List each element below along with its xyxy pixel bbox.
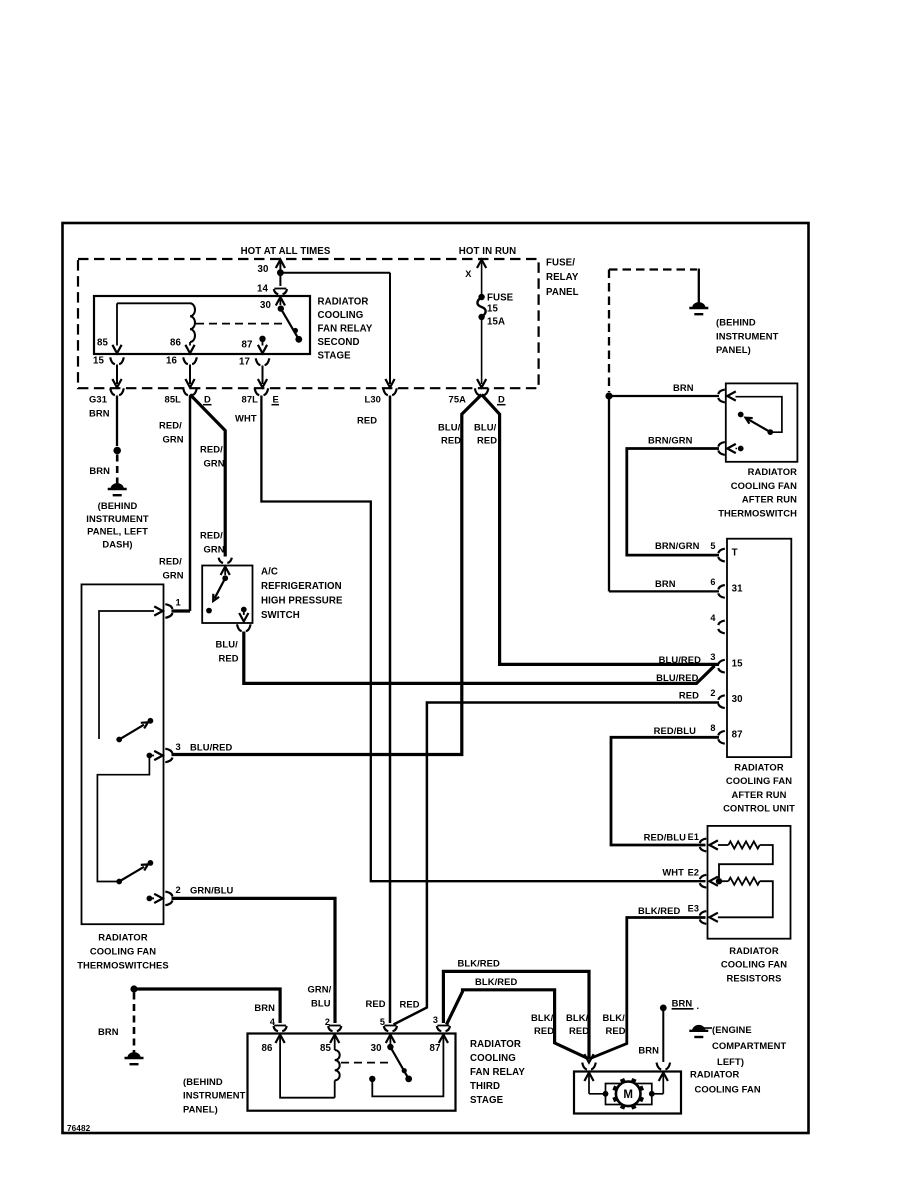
resistor R1a [718,841,773,878]
pin 5 / T [710,541,737,562]
svg-text:HOT AT ALL TIMES: HOT AT ALL TIMES [241,246,331,257]
wire BRN dashed to ground (behind instrument panel) [98,993,134,1054]
relay K2 pin 86 [170,338,195,354]
wire: hot feed down to relay second stage pin 30 [276,260,285,287]
svg-text:INSTRUMENT: INSTRUMENT [86,513,149,524]
relay K3 RADIATOR COOLING FAN RELAY THIRD STAGE [248,1034,526,1111]
svg-text:5: 5 [380,1017,385,1027]
connector pin 2 [325,1017,341,1031]
svg-text:RED/: RED/ [200,530,223,541]
pin 8 / 87 [710,723,742,744]
svg-text:CONTROL UNIT: CONTROL UNIT [723,803,795,814]
relay K3 pin 30 contact arm [371,1035,412,1083]
fan internal wiring [584,1073,668,1094]
svg-text:GRN: GRN [163,570,184,581]
svg-text:PANEL): PANEL) [183,1103,218,1114]
wire BLK/RED resistors E3 to cooling fan [589,905,706,1059]
svg-text:E3: E3 [688,904,699,914]
svg-text:RED: RED [366,998,386,1009]
connector 14 [257,284,287,295]
wire BRN dashed (behind instrument panel) [89,455,117,485]
resistor pack R1 RADIATOR COOLING FAN RESISTORS [708,826,791,984]
pin 2 [147,884,234,905]
svg-text:STAGE: STAGE [470,1095,504,1106]
svg-text:BLU: BLU [311,998,331,1009]
svg-text:75A: 75A [449,394,467,405]
labels BLK/RED at fan [531,1012,626,1036]
svg-text:BRN: BRN [89,408,110,419]
switch S2 input pin [221,567,230,582]
motor brushes [603,1084,655,1105]
svg-text:INSTRUMENT: INSTRUMENT [183,1090,246,1101]
svg-text:RED/BLU: RED/BLU [654,725,696,736]
svg-text:17: 17 [239,357,250,368]
svg-text:RED: RED [679,690,699,701]
relay K2 contact arm (30-87) [278,305,303,342]
svg-text:COOLING FAN: COOLING FAN [721,959,787,970]
wire BLU/RED 75A to thermoswitch pin 3 [172,395,482,755]
svg-text:(ENGINE: (ENGINE [712,1024,752,1035]
svg-text:30: 30 [371,1043,382,1054]
wire BRN to relay third stage pin 4 [134,989,280,1023]
switch S3 RADIATOR COOLING FAN AFTER RUN THERMOSWITCH [718,383,797,518]
svg-text:(BEHIND: (BEHIND [98,500,138,511]
wire BLK/RED relay pin 3 to fan (lower) [447,976,590,1059]
svg-text:85: 85 [320,1043,331,1054]
relay K2 actuation dashed link [196,323,287,325]
svg-text:WHT: WHT [235,413,257,424]
svg-text:RED: RED [606,1025,626,1036]
label 30 (fuse/relay panel terminal) [258,264,269,275]
svg-text:RESISTORS: RESISTORS [727,972,782,983]
wire GRN/BLU thermoswitch pin 2 to relay third stage pin 2 [172,898,336,1023]
pin 2 / 30 [710,688,742,708]
svg-text:(BEHIND: (BEHIND [716,317,756,328]
thermoswitch S1 contact 2 [116,860,153,884]
svg-text:BRN: BRN [638,1045,659,1056]
svg-text:RED/: RED/ [159,556,182,567]
svg-text:BRN/GRN: BRN/GRN [655,540,700,551]
svg-text:WHT: WHT [662,867,684,878]
ground (engine compartment left) [689,1024,786,1067]
connector G31 [89,388,124,418]
svg-text:3: 3 [176,741,181,752]
svg-text:15: 15 [93,356,104,367]
svg-text:6: 6 [710,577,715,587]
fuse/relay panel (dashed outline) [78,258,579,389]
svg-text:BLK/RED: BLK/RED [475,976,517,987]
svg-text:RED: RED [534,1025,554,1036]
pin 6 / 31 [710,577,743,598]
resistor R1b [718,878,773,918]
S3 pin 1 connector [718,390,736,403]
svg-text:E: E [273,394,279,405]
wire RED/GRN branch to A/C pressure switch [190,395,225,557]
svg-text:BRN: BRN [655,578,676,589]
connector 15 [93,356,124,388]
svg-text:BLU/: BLU/ [216,639,239,650]
connector pin 5 [380,1017,397,1031]
pin E2 [662,867,718,888]
relay K2 RADIATOR COOLING FAN RELAY SECOND STAGE [94,296,373,361]
relay K2 pin 87 contact [242,336,268,354]
svg-text:86: 86 [262,1043,273,1054]
svg-text:4: 4 [710,613,716,623]
svg-text:BLK/RED: BLK/RED [458,958,500,969]
svg-text:3: 3 [710,652,715,662]
S3 contact arm [738,412,773,435]
relay K3 pin 87 contact [369,1035,448,1097]
pin 1 [165,597,181,618]
svg-text:1: 1 [176,597,181,608]
svg-text:GRN: GRN [163,434,184,445]
relay K3 actuation dashed link [341,1062,393,1064]
svg-text:FAN RELAY: FAN RELAY [470,1067,525,1078]
relay K3 pin 86 [262,1035,335,1098]
wire BRN to ground G31 [116,396,118,447]
svg-text:15A: 15A [487,317,505,328]
svg-text:HIGH PRESSURE: HIGH PRESSURE [261,596,343,607]
wire BRN down to control unit pin 6 [609,396,719,591]
fuse F15 15A (HOT IN RUN feed) [465,260,513,388]
svg-text:GRN: GRN [204,544,225,555]
svg-text:BLU/RED: BLU/RED [190,742,232,753]
svg-text:14: 14 [257,284,268,295]
pin 3 [165,741,232,762]
wire BLU/RED 75A to after-run control unit pin 3 [474,395,719,665]
svg-text:BRN/GRN: BRN/GRN [648,435,693,446]
junction BRN [660,1005,667,1012]
svg-text:RADIATOR: RADIATOR [729,945,779,956]
net HOT AT ALL TIMES [241,246,331,257]
svg-text:COOLING: COOLING [470,1053,516,1064]
svg-text:BRN: BRN [673,382,694,393]
svg-text:RELAY: RELAY [546,272,579,283]
connector 16 [166,356,197,388]
connector 85L / D [165,388,212,404]
svg-text:RED: RED [441,435,461,446]
wire BRN/GRN thermoswitch S3 to control unit pin T [627,435,719,556]
svg-text:BLU/: BLU/ [474,422,497,433]
svg-text:RADIATOR: RADIATOR [318,296,369,307]
svg-text:86: 86 [170,338,181,349]
pin 4 [710,613,724,633]
module U1 RADIATOR COOLING FAN AFTER RUN CONTROL UNIT [723,539,795,814]
svg-text:BRN: BRN [254,1002,275,1013]
wire WHT 87L to resistors E2 [235,396,706,882]
wire dashed (fuse/relay panel boundary, behind instrument panel) [609,270,697,393]
svg-text:BLU/: BLU/ [438,422,461,433]
svg-text:A/C: A/C [261,567,278,578]
svg-text:RADIATOR: RADIATOR [748,466,798,477]
svg-text:COOLING FAN: COOLING FAN [695,1084,761,1095]
svg-text:COOLING FAN: COOLING FAN [726,775,792,786]
label BRN (underlined) [672,998,700,1012]
svg-text:31: 31 [732,584,743,595]
S3 internal wiring [736,397,782,433]
svg-text:.: . [697,1000,700,1011]
svg-text:RADIATOR: RADIATOR [98,932,148,943]
svg-text:HOT IN RUN: HOT IN RUN [459,246,517,257]
connector 87L / E [242,388,279,404]
svg-text:BLK/: BLK/ [531,1012,554,1023]
svg-text:15: 15 [732,658,743,669]
pin E1 [688,832,718,851]
svg-text:RED: RED [569,1025,589,1036]
svg-text:COOLING: COOLING [318,310,364,321]
connector pin 3 [433,1015,450,1031]
connector 75A / D [449,388,506,404]
switch S2 arm [206,578,225,613]
wire BRN cooling fan to junction [662,1008,664,1062]
switch S2 output pin [239,607,248,622]
svg-text:SWITCH: SWITCH [261,610,300,621]
svg-text:E2: E2 [688,868,699,878]
svg-text:RED: RED [477,435,497,446]
svg-text:85: 85 [97,338,108,349]
relay K2 coil [117,303,195,342]
wire RED/GRN 85L to thermoswitch pin 1 [159,396,190,612]
svg-text:87L: 87L [242,394,259,405]
svg-text:RADIATOR: RADIATOR [470,1039,521,1050]
svg-text:D: D [204,394,211,405]
svg-text:76482: 76482 [67,1124,91,1133]
wire: feed over to terminal L30 [280,273,394,388]
svg-text:2: 2 [710,688,715,698]
wire BRN to after-run thermoswitch pin 1 [609,382,719,396]
svg-text:RED: RED [400,999,420,1010]
svg-text:D: D [498,394,505,405]
svg-text:8: 8 [710,723,715,733]
svg-text:COMPARTMENT: COMPARTMENT [712,1040,787,1051]
svg-text:2: 2 [176,884,181,895]
svg-text:BLU/RED: BLU/RED [659,654,701,665]
svg-text:SECOND: SECOND [318,337,360,348]
svg-text:5: 5 [710,541,715,551]
wire RED/BLU control unit pin 8 to resistors E1 [611,725,719,845]
svg-text:85L: 85L [165,394,182,405]
motor symbol M [613,1079,643,1109]
svg-text:87: 87 [430,1043,441,1054]
svg-text:STAGE: STAGE [318,350,352,361]
wire to ground (behind instrument panel) [698,269,700,304]
svg-text:30: 30 [260,300,271,311]
svg-text:87: 87 [732,730,743,741]
svg-text:FUSE: FUSE [487,293,514,304]
svg-text:15: 15 [487,304,498,315]
svg-text:X: X [465,269,472,279]
svg-text:PANEL): PANEL) [716,344,751,355]
svg-text:M: M [623,1089,633,1101]
connector 17 [239,357,269,388]
junction [113,447,121,455]
svg-text:BRN: BRN [89,465,110,476]
svg-text:PANEL, LEFT: PANEL, LEFT [87,526,148,537]
S3 pin 2 connector [718,442,743,455]
svg-text:LEFT): LEFT) [717,1056,744,1067]
svg-text:THERMOSWITCH: THERMOSWITCH [718,507,797,518]
connector below A/C switch [237,624,251,631]
svg-text:AFTER RUN: AFTER RUN [731,789,786,800]
ground (behind instrument panel) [689,303,778,356]
thermoswitch S1 contact 1 [116,718,153,743]
svg-text:RADIATOR: RADIATOR [690,1069,740,1080]
relay K3 pin 85 + coil [320,1035,340,1098]
svg-text:COOLING FAN: COOLING FAN [731,480,797,491]
svg-text:BRN: BRN [98,1026,119,1037]
junction [277,269,284,276]
svg-text:GRN: GRN [204,458,225,469]
svg-text:(BEHIND: (BEHIND [183,1076,223,1087]
connector L30 [365,388,397,404]
svg-text:RED: RED [357,415,377,426]
svg-text:RED/BLU: RED/BLU [644,832,686,843]
svg-text:GRN/BLU: GRN/BLU [190,885,234,896]
switch S2 A/C REFRIGERATION HIGH PRESSURE SWITCH [202,558,343,623]
thermoswitch S1 internal wiring pin 1 [99,606,163,739]
svg-text:30: 30 [258,264,269,275]
svg-text:30: 30 [732,694,743,705]
wire RED L30 to relay third stage pin 5 [357,396,390,1024]
switch S1 RADIATOR COOLING FAN THERMOSWITCHES [77,584,169,970]
svg-text:FUSE/: FUSE/ [546,258,575,269]
svg-text:COOLING FAN: COOLING FAN [90,946,156,957]
svg-text:REFRIGERATION: REFRIGERATION [261,581,342,592]
svg-text:T: T [732,547,738,558]
connector pin 4 [270,1017,287,1031]
svg-text:BLK/: BLK/ [603,1012,626,1023]
svg-text:INSTRUMENT: INSTRUMENT [716,330,779,341]
svg-text:87: 87 [242,340,253,351]
svg-text:BRN: BRN [672,998,693,1009]
svg-text:BLU/RED: BLU/RED [656,672,698,683]
wire RED control unit pin 2 to relay third stage pin 5 [366,690,720,1025]
svg-text:3: 3 [433,1015,438,1025]
net HOT IN RUN [459,246,517,257]
svg-text:BLK/: BLK/ [566,1012,589,1023]
svg-text:16: 16 [166,356,177,367]
svg-text:RADIATOR: RADIATOR [734,761,784,772]
relay K2 pin 30 input arrow [260,297,285,311]
svg-text:RED/: RED/ [159,420,182,431]
svg-text:RED: RED [219,653,239,664]
svg-text:E1: E1 [688,832,699,842]
relay K2 pin 85 [97,303,122,353]
svg-text:GRN/: GRN/ [308,984,332,995]
svg-text:AFTER RUN: AFTER RUN [742,494,797,505]
ground G31 (behind instrument panel, left dash) [86,484,149,550]
junction [130,985,137,992]
svg-text:L30: L30 [365,394,381,405]
svg-text:THIRD: THIRD [470,1081,500,1092]
thermoswitch S1 internal wiring pin 3 [97,751,162,882]
svg-text:RED/: RED/ [200,444,223,455]
pin 3 / 15 [656,652,743,683]
svg-text:THERMOSWITCHES: THERMOSWITCHES [77,960,169,971]
svg-text:G31: G31 [89,394,107,405]
svg-text:FAN RELAY: FAN RELAY [318,323,373,334]
wire BLU/RED from A/C switch to control unit pin 3 [216,632,715,684]
fan connector left [582,1054,596,1069]
svg-text:DASH): DASH) [102,538,132,549]
wire BLK/RED relay pin 3 to fan (upper) [443,958,589,1059]
motor M1 RADIATOR COOLING FAN [574,1069,761,1114]
svg-text:PANEL: PANEL [546,287,579,298]
fan connector right (BRN) [638,1045,670,1070]
ground (behind instrument panel) [125,1053,246,1115]
junction [605,392,612,399]
junction [716,878,722,884]
svg-text:BLK/RED: BLK/RED [638,905,680,916]
pin E3 [688,904,718,924]
